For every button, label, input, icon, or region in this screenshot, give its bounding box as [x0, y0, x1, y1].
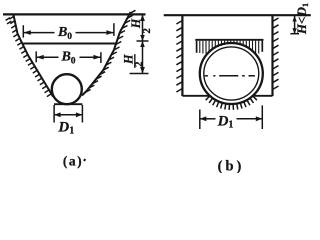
trench right wall (b) [271, 15, 273, 96]
backfill vertical strokes (b) [197, 41, 263, 54]
backfill top line (b) [195, 39, 263, 41]
pipe inner wall (b) [204, 47, 259, 100]
trench bottom right segment (b) [252, 95, 273, 97]
trench left wall (b) [181, 15, 183, 96]
dimension D1 pipe diameter (b) [200, 105, 262, 130]
svg-text:H: H [129, 18, 143, 29]
hatching on left slope (a) [6, 16, 52, 96]
svg-text:(b): (b) [218, 159, 245, 174]
svg-text:(a): (a) [63, 154, 83, 169]
trench right slope wall (a) [82, 12, 131, 96]
ground surface line (a) [3, 13, 146, 15]
pipe outer wall (b) [200, 43, 263, 104]
svg-text:2: 2 [133, 61, 145, 67]
pipe cross-section (a) [52, 74, 82, 104]
bedding hatch under pipe (b) [206, 96, 257, 110]
svg-text:H<D1: H<D1 [294, 3, 310, 35]
ground surface line (b) [164, 14, 311, 16]
label H/2 lower rotated (a) [121, 54, 145, 68]
trench bottom line (a) [54, 103, 82, 105]
label H/2 upper rotated (a) [129, 18, 153, 33]
trench bottom left segment (b) [182, 95, 210, 97]
dimension H/2 ticks and line (a) [130, 14, 149, 74]
dimension D1 pipe diameter (a) [54, 105, 82, 137]
hatching right wall (b) [273, 18, 279, 90]
printing speck after (a) [83, 159, 86, 162]
pipe center line (b) [205, 75, 255, 77]
hatching left wall (b) [176, 21, 182, 93]
trench left slope wall (a) [14, 15, 54, 97]
hatching on right slope (a) [85, 10, 136, 92]
dimension H depth tick (b) [290, 15, 299, 34]
dimension B0 lower stage width (a) [36, 50, 101, 67]
intermediate excavation level line (a) [23, 43, 117, 45]
dimension B0 upper stage width (a) [23, 23, 114, 41]
svg-text:2: 2 [141, 28, 153, 34]
